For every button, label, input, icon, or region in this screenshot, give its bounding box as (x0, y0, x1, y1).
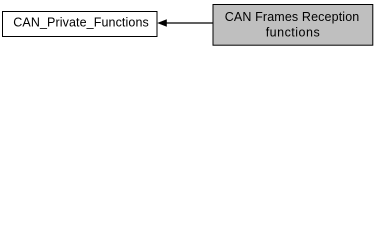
svg-text:functions: functions (266, 25, 320, 39)
node CAN_Private_Functions (3, 12, 158, 37)
svg-text:CAN_Private_Functions: CAN_Private_Functions (13, 16, 149, 30)
arrowhead pointing left at CAN_Private_Functions (158, 20, 167, 27)
wire edge from gray node to white node (164, 22, 213, 24)
svg-text:CAN Frames Reception: CAN Frames Reception (225, 10, 360, 24)
node CAN Frames Reception functions (213, 5, 373, 46)
